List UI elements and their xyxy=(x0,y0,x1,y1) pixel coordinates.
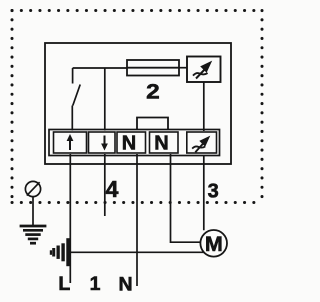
dotted enclosure border (top row) xyxy=(12,9,262,12)
terminal strip frame xyxy=(49,130,220,156)
earth ground xyxy=(20,226,47,243)
wire (fuse to thermostat) xyxy=(179,67,187,69)
motor M1 xyxy=(200,230,227,257)
svg-text:L: L xyxy=(58,273,70,295)
chassis/noise ground (rotated bars on L wire) xyxy=(50,238,70,266)
terminal N (second) xyxy=(150,132,179,155)
wire N (first N terminal down to bottom) xyxy=(136,154,138,286)
wire (thermostat down to terminal 3) xyxy=(203,82,205,131)
wire (top bus from switch to fuse) xyxy=(73,67,127,69)
dotted enclosure border (left column) xyxy=(11,11,14,203)
wire (bars junction across to motor) xyxy=(70,251,204,253)
dotted enclosure border (bottom row) xyxy=(12,201,262,204)
terminal 3 (thermostat out, slanted arrow) xyxy=(187,132,217,153)
switch S1 xyxy=(72,68,80,131)
svg-text:N: N xyxy=(154,133,168,155)
wire 3 (terminal 3 down to motor) xyxy=(203,156,205,231)
svg-text:4: 4 xyxy=(106,176,119,202)
svg-text:M: M xyxy=(205,232,223,256)
device outline box xyxy=(45,43,231,164)
terminal N (first) xyxy=(117,132,146,155)
svg-text:3: 3 xyxy=(208,181,219,203)
fuse / heating element 2 xyxy=(127,60,179,76)
protective conductor symbol (circle with slash) xyxy=(25,181,40,196)
wire 4 (terminal 2 stub) xyxy=(104,154,106,216)
wire L (terminal 1 down to bottom) xyxy=(69,154,71,283)
dotted enclosure border (right column) xyxy=(261,11,264,203)
svg-text:2: 2 xyxy=(146,80,160,104)
terminal 2 (down arrow) xyxy=(89,132,116,153)
wire (slash circle to earth) xyxy=(32,197,34,225)
svg-text:N: N xyxy=(118,274,132,296)
wire (terminal 2 riser) xyxy=(104,68,106,131)
wire (second N terminal to motor) xyxy=(171,154,201,242)
svg-text:1: 1 xyxy=(90,273,101,295)
terminal 1 (L in, up arrow) xyxy=(54,132,87,153)
jumper link between N terminals xyxy=(137,118,168,130)
thermostat adjuster U1 (box with slanted arrow) xyxy=(187,57,221,83)
svg-text:N: N xyxy=(122,133,136,155)
